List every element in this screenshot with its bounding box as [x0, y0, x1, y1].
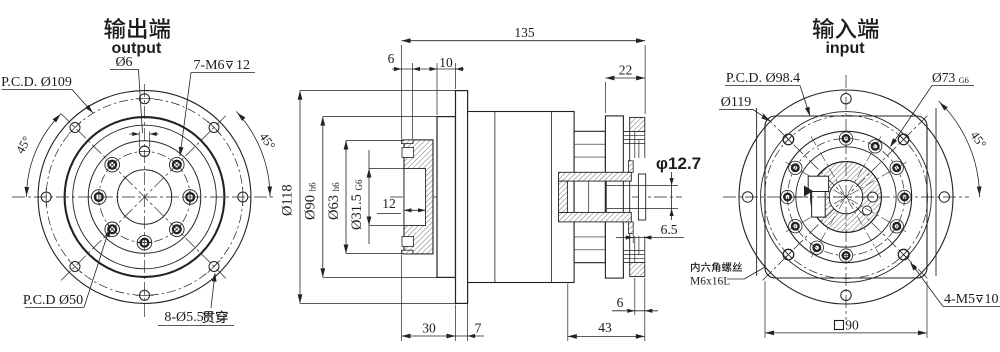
dim D63 h6 [346, 140, 404, 142]
svg-text:4-M5: 4-M5 [944, 292, 975, 307]
PCD50 circle (dash-dot) [99, 151, 190, 242]
D90 boss [432, 140, 434, 254]
svg-text:22: 22 [619, 63, 633, 78]
body circle D94.6 [761, 112, 932, 283]
8x D5.5 through holes [238, 192, 248, 202]
side plate edge lines [756, 108, 758, 276]
10x M6 socket screws [898, 190, 911, 203]
svg-text:output: output [112, 40, 162, 57]
clamp block [808, 176, 828, 191]
svg-text:Ø119: Ø119 [721, 95, 752, 110]
wire: horizontal centerline over clamp [795, 196, 880, 198]
svg-text:P.C.D. Ø98.4: P.C.D. Ø98.4 [726, 71, 800, 86]
label hex socket screws M6x16L [691, 262, 700, 272]
input hub hatched [811, 162, 882, 233]
D63 circle [88, 141, 201, 254]
svg-text:6: 6 [388, 51, 395, 66]
dim 43 bottom right [567, 284, 569, 342]
dim D118 vertical [300, 90, 456, 92]
bore step lines [588, 181, 590, 212]
svg-text:φ12.7: φ12.7 [656, 154, 701, 173]
30deg spokes [785, 162, 906, 232]
svg-text:135: 135 [514, 25, 535, 40]
dim square 90 [764, 281, 766, 338]
dim 6 adapter [634, 278, 636, 315]
45deg arc dim right [236, 111, 270, 197]
dim 135 overall [401, 45, 403, 139]
D73 G6 spigot circle [780, 131, 911, 262]
svg-text:input: input [825, 40, 865, 57]
flange plate D118 [456, 91, 468, 304]
svg-text:12: 12 [382, 196, 396, 211]
dim 12 bore depth [404, 209, 426, 211]
dim D6 pin [138, 132, 140, 148]
hub bore D31.5 [404, 169, 426, 226]
svg-text:43: 43 [598, 320, 612, 335]
svg-text:8-Ø5.5: 8-Ø5.5 [164, 310, 203, 325]
outer circle D119 [739, 90, 953, 304]
4x M5 corner holes [898, 249, 909, 260]
45deg arc dim input [939, 101, 980, 197]
45deg arc dim left [27, 114, 62, 197]
hub front lips [402, 140, 414, 144]
svg-text:6: 6 [617, 295, 624, 310]
adapter ring hatched blocks [630, 117, 645, 131]
screw ring PCD (dash-dot) [788, 139, 905, 256]
D79 circle [73, 125, 217, 269]
wire: left view centerlines [144, 84, 146, 318]
dim phi12.7 bold [646, 185, 678, 187]
D90 boss circle (thick) [65, 117, 225, 277]
adapter step rings [623, 134, 644, 136]
neck D73 [574, 131, 605, 262]
clamp arrow [804, 186, 813, 197]
wire: section centerline [390, 196, 682, 198]
main housing body [468, 112, 574, 283]
PCD mounting circle (dash-dot) [765, 116, 928, 279]
hub screw notches [402, 148, 414, 158]
title output [104, 18, 125, 39]
svg-text:10: 10 [439, 55, 453, 70]
right cap [638, 174, 645, 220]
7x M6 tapped holes [183, 190, 198, 205]
input hub (hollow shaft, hatched) [559, 172, 632, 181]
dim D31.5 G6 [369, 168, 404, 170]
title input [813, 18, 834, 39]
svg-text:30: 30 [422, 321, 436, 336]
svg-text:Ø118: Ø118 [280, 184, 296, 216]
svg-text:Ø6: Ø6 [115, 55, 132, 70]
hub rear tabs hatched [628, 161, 633, 173]
dims 6 and 10 [412, 63, 414, 139]
output hub D63 (hatched) [404, 140, 433, 254]
balance holes [868, 192, 878, 202]
center bore D31.5 [117, 170, 171, 224]
svg-text:M6x16L: M6x16L [690, 276, 730, 288]
dim 22 [604, 82, 606, 113]
svg-text:7-M6: 7-M6 [193, 58, 224, 73]
D6 pin hole at top [139, 146, 149, 156]
svg-text:90: 90 [845, 318, 859, 333]
input flange plate [605, 116, 623, 278]
PCD109 bolt circle (dash-dot) [46, 99, 243, 296]
square flange 90 [765, 116, 927, 278]
svg-text:P.C.D. Ø109: P.C.D. Ø109 [1, 75, 72, 90]
svg-text:6.5: 6.5 [661, 222, 678, 237]
dim 6.5 [632, 234, 634, 243]
svg-text:12: 12 [236, 58, 250, 73]
wire: input view centerlines [845, 75, 847, 320]
coupling recess circle D55 [796, 147, 896, 247]
flange outer circle D118 [38, 91, 251, 304]
hub bore [829, 180, 863, 214]
dims 30 and 7 bottom [401, 255, 403, 341]
rear plate [623, 132, 629, 263]
svg-text:P.C.D Ø50: P.C.D Ø50 [23, 293, 83, 308]
svg-text:7: 7 [475, 321, 482, 336]
dim D90 h6 [323, 116, 437, 118]
4x D5.5 side holes on PCD109 [939, 192, 949, 202]
svg-text:10: 10 [985, 292, 999, 307]
